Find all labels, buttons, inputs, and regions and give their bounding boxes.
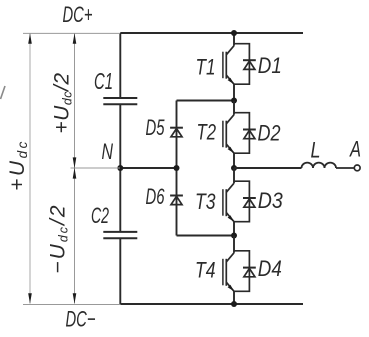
extension line bottom bbox=[23, 304, 120, 306]
dimension line Udc/2 bbox=[74, 34, 76, 304]
node T3-T4 junction bbox=[231, 233, 237, 239]
extension line node N bbox=[71, 167, 121, 169]
wire bottom rail DC- bbox=[120, 303, 303, 305]
wire clamp column vertical bbox=[176, 101, 178, 236]
transistor T4 (IGBT) bbox=[223, 236, 234, 305]
arrowhead +Udc bottom bbox=[28, 293, 32, 304]
svg-text:T2: T2 bbox=[197, 120, 217, 145]
terminal A circle bbox=[354, 165, 360, 171]
svg-text:DC+: DC+ bbox=[63, 2, 93, 27]
diode D3 branch bbox=[234, 181, 249, 222]
diode D2 branch bbox=[234, 113, 249, 154]
arrowhead +Udc/2 top bbox=[73, 33, 77, 44]
diode D1 branch bbox=[234, 44, 249, 84]
diode D2 bbox=[243, 130, 256, 139]
dimension line +Udc bbox=[29, 34, 31, 304]
svg-text:A: A bbox=[349, 137, 361, 162]
transistor T1 (IGBT) bbox=[223, 33, 234, 101]
node clamp midpoint dot bbox=[174, 165, 180, 171]
node output junction T2-T3 bbox=[231, 165, 237, 171]
wire C1 to node N bbox=[119, 104, 121, 168]
capacitor C1 bbox=[103, 98, 137, 104]
svg-text:L: L bbox=[311, 138, 321, 163]
node N junction dot bbox=[117, 165, 123, 171]
svg-text:T3: T3 bbox=[195, 189, 216, 214]
svg-text:D4: D4 bbox=[258, 256, 282, 281]
svg-text:D6: D6 bbox=[146, 184, 165, 209]
extension line top bbox=[23, 32, 120, 34]
svg-text:D1: D1 bbox=[258, 53, 282, 78]
edge artifact mark bbox=[1, 86, 6, 99]
diode D6 bbox=[170, 196, 183, 205]
wire clamp top jog bbox=[177, 100, 235, 102]
transistor T3 (IGBT) bbox=[223, 168, 234, 236]
transistor T2 (IGBT) bbox=[223, 101, 234, 169]
svg-text:N: N bbox=[102, 139, 114, 164]
diode D3 bbox=[243, 198, 256, 207]
svg-text:D5: D5 bbox=[146, 115, 165, 140]
diode D4 branch bbox=[234, 251, 249, 291]
svg-text:D3: D3 bbox=[258, 188, 283, 213]
arrowhead +Udc/2 bottom bbox=[73, 157, 77, 168]
wire clamp bottom jog bbox=[177, 235, 235, 237]
node bottom rail junction bbox=[231, 301, 237, 307]
arrowhead -Udc/2 bottom bbox=[73, 293, 77, 304]
wire top rail DC+ bbox=[120, 32, 303, 34]
capacitor C2 bbox=[103, 232, 137, 238]
wire output to inductor bbox=[234, 167, 302, 169]
svg-text:T1: T1 bbox=[196, 55, 216, 80]
arrowhead -Udc/2 top bbox=[73, 168, 77, 179]
wire node N horizontal bbox=[120, 167, 176, 169]
node top rail junction bbox=[231, 30, 237, 36]
svg-text:DC−: DC− bbox=[66, 307, 96, 332]
svg-text:T4: T4 bbox=[195, 257, 216, 282]
svg-text:D2: D2 bbox=[258, 121, 281, 146]
wire inductor to terminal A bbox=[336, 167, 354, 169]
diode D4 bbox=[243, 268, 256, 277]
svg-text:C2: C2 bbox=[91, 203, 109, 228]
diode D5 bbox=[170, 128, 183, 137]
diode D1 bbox=[243, 60, 256, 69]
svg-text:C1: C1 bbox=[94, 68, 113, 94]
arrowhead +Udc top bbox=[28, 33, 32, 44]
wire capacitor branch upper (rail to C1) bbox=[119, 33, 121, 98]
wire C2 to bottom rail bbox=[119, 238, 121, 304]
inductor L bbox=[302, 163, 337, 168]
wire node N to C2 bbox=[119, 168, 121, 232]
node T1-T2 junction bbox=[231, 98, 237, 104]
